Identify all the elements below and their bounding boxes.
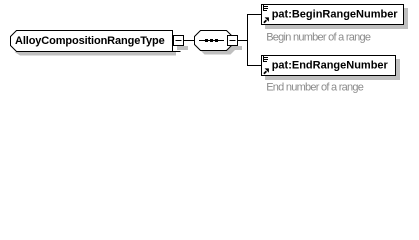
- wire: branch to pat:BeginRangeNumber: [247, 14, 261, 16]
- svg-text:Begin number of a range: Begin number of a range: [266, 32, 371, 44]
- wire: expand box 2 to branch trunk: [237, 40, 248, 42]
- icon: element content lines (pat:EndRangeNumber): [263, 56, 268, 62]
- sequence compositor octagon: [195, 31, 233, 51]
- shadow of element box pat:EndRangeNumber: [265, 59, 400, 80]
- svg-text:AlloyCompositionRangeType: AlloyCompositionRangeType: [15, 35, 165, 47]
- shadow of expand box 1: [177, 46, 188, 50]
- shadow of complexType box: [15, 52, 177, 56]
- svg-text:End number of a range: End number of a range: [266, 82, 364, 94]
- shadow of element box pat:BeginRangeNumber: [265, 8, 408, 29]
- element box pat:EndRangeNumber: [262, 56, 396, 76]
- sequence symbol line with three dots: [199, 39, 224, 42]
- svg-text:pat:BeginRangeNumber: pat:BeginRangeNumber: [272, 9, 399, 21]
- complexType box AlloyCompositionRangeType: [11, 31, 173, 52]
- element box pat:BeginRangeNumber: [262, 5, 404, 25]
- shadow of sequence octagon: [199, 35, 237, 55]
- wire: branch to pat:EndRangeNumber: [247, 65, 261, 67]
- icon: element content lines (pat:BeginRangeNumber): [263, 5, 268, 11]
- icon: reference arrow (pat:EndRangeNumber): [264, 68, 269, 73]
- expand box 2 (minus) on sequence octagon: [228, 36, 238, 46]
- wire: expand box 1 to sequence octagon: [183, 40, 195, 42]
- wire: vertical trunk: [247, 14, 249, 66]
- bottom edge extension under expand box 1: [172, 51, 181, 53]
- expand box 1 (minus) on complexType box: [174, 36, 184, 46]
- svg-text:pat:EndRangeNumber: pat:EndRangeNumber: [272, 60, 389, 72]
- icon: reference arrow (pat:BeginRangeNumber): [264, 17, 269, 22]
- shadow of expand box 2: [231, 46, 242, 50]
